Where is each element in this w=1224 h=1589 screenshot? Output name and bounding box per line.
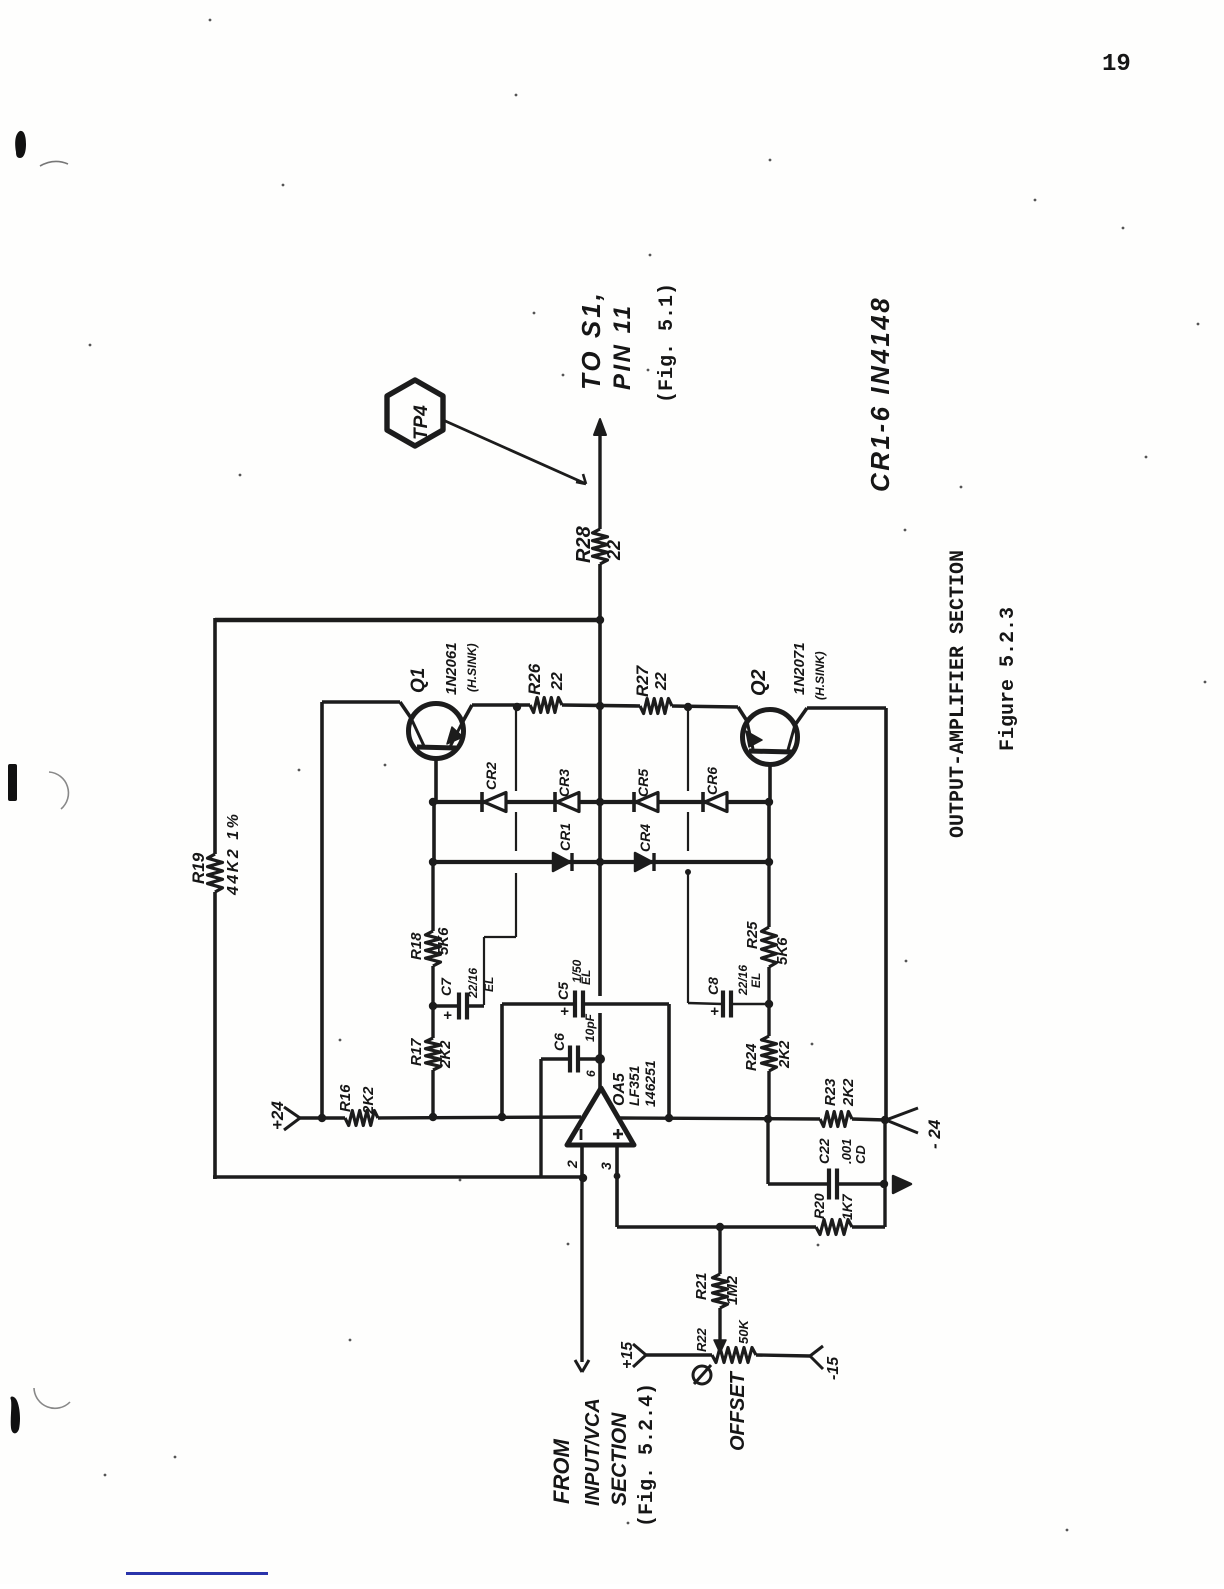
svg-text:TP4: TP4: [411, 405, 432, 440]
svg-text:+: +: [710, 1003, 719, 1020]
svg-text:R26: R26: [525, 663, 544, 695]
svg-text:OFFSET: OFFSET: [727, 1370, 749, 1451]
svg-text:1N2071: 1N2071: [791, 642, 808, 695]
svg-text:1K7: 1K7: [839, 1193, 855, 1220]
svg-text:22: 22: [549, 672, 566, 691]
svg-text:R24: R24: [743, 1043, 760, 1071]
svg-text:.001: .001: [839, 1139, 854, 1164]
svg-text:TO S1,: TO S1,: [576, 290, 606, 390]
svg-text:INPUT/VCA: INPUT/VCA: [582, 1398, 604, 1506]
svg-text:CR3: CR3: [556, 769, 572, 797]
svg-text:C5: C5: [555, 982, 571, 1000]
svg-text:R23: R23: [822, 1078, 839, 1106]
svg-text:LF351: LF351: [626, 1065, 642, 1106]
svg-text:CR4: CR4: [637, 824, 653, 852]
svg-text:C6: C6: [551, 1033, 567, 1051]
svg-text:50K: 50K: [736, 1319, 751, 1344]
svg-text:SECTION: SECTION: [608, 1412, 631, 1506]
svg-text:(H.SINK): (H.SINK): [813, 651, 827, 700]
svg-text:- 24: - 24: [925, 1119, 944, 1149]
svg-text:OUTPUT-AMPLIFIER SECTION: OUTPUT-AMPLIFIER SECTION: [947, 550, 970, 838]
svg-text:R28: R28: [573, 525, 595, 563]
svg-text:CR6: CR6: [704, 767, 720, 795]
svg-text:22/16: 22/16: [466, 968, 480, 999]
svg-text:C8: C8: [705, 977, 721, 995]
svg-text:R20: R20: [811, 1193, 827, 1219]
svg-text:2: 2: [564, 1160, 580, 1169]
svg-text:1N2061: 1N2061: [443, 642, 460, 695]
svg-text:(H.SINK): (H.SINK): [465, 643, 479, 692]
svg-text:C22: C22: [816, 1138, 832, 1164]
svg-text:EL: EL: [579, 970, 593, 985]
svg-text:146251: 146251: [642, 1060, 658, 1107]
svg-text:R16: R16: [337, 1084, 354, 1112]
svg-text:R18: R18: [408, 932, 425, 960]
svg-text:44K2 1%: 44K2 1%: [225, 812, 242, 896]
svg-text:+15: +15: [619, 1341, 636, 1369]
svg-text:CR1-6 IN4148: CR1-6 IN4148: [865, 296, 895, 492]
svg-text:FROM: FROM: [549, 1439, 574, 1504]
svg-text:+: +: [443, 1007, 452, 1024]
svg-text:CR2: CR2: [483, 762, 499, 790]
svg-text:EL: EL: [482, 977, 496, 992]
svg-text:R17: R17: [408, 1038, 425, 1066]
svg-text:3: 3: [598, 1162, 614, 1170]
svg-text:+: +: [560, 1003, 569, 1020]
svg-text:10pF: 10pF: [583, 1013, 597, 1042]
svg-text:R25: R25: [744, 921, 761, 949]
svg-text:PIN 11: PIN 11: [609, 303, 636, 390]
svg-text:Q2: Q2: [748, 669, 770, 696]
svg-text:5K6: 5K6: [435, 927, 452, 955]
svg-text:R22: R22: [694, 1327, 709, 1352]
svg-text:R21: R21: [693, 1272, 710, 1300]
svg-text:2K2: 2K2: [776, 1040, 793, 1069]
svg-text:22: 22: [604, 540, 624, 561]
svg-text:CR1: CR1: [557, 823, 573, 851]
svg-text:5K6: 5K6: [774, 937, 791, 965]
svg-text:Figure 5.2.3: Figure 5.2.3: [997, 607, 1020, 751]
svg-text:+24: +24: [268, 1101, 287, 1130]
svg-text:-15: -15: [825, 1356, 842, 1380]
svg-text:6: 6: [584, 1070, 598, 1077]
svg-text:C7: C7: [438, 977, 454, 996]
svg-text:19: 19: [1102, 51, 1131, 78]
svg-text:CR5: CR5: [635, 769, 651, 797]
svg-text:1M2: 1M2: [724, 1275, 741, 1305]
svg-text:22/16: 22/16: [736, 965, 750, 996]
svg-text:EL: EL: [749, 973, 763, 988]
svg-text:CD: CD: [853, 1145, 868, 1164]
svg-text:R19: R19: [189, 852, 208, 884]
svg-text:R27: R27: [633, 664, 652, 697]
svg-text:Q1: Q1: [408, 668, 429, 693]
svg-text:22: 22: [653, 672, 670, 691]
svg-text:2K2: 2K2: [840, 1078, 857, 1107]
svg-text:(Fig. 5.2.4): (Fig. 5.2.4): [636, 1383, 659, 1527]
svg-text:2K2: 2K2: [360, 1086, 377, 1115]
svg-text:(Fig. 5.1): (Fig. 5.1): [656, 283, 679, 403]
svg-text:2K2: 2K2: [437, 1040, 454, 1069]
